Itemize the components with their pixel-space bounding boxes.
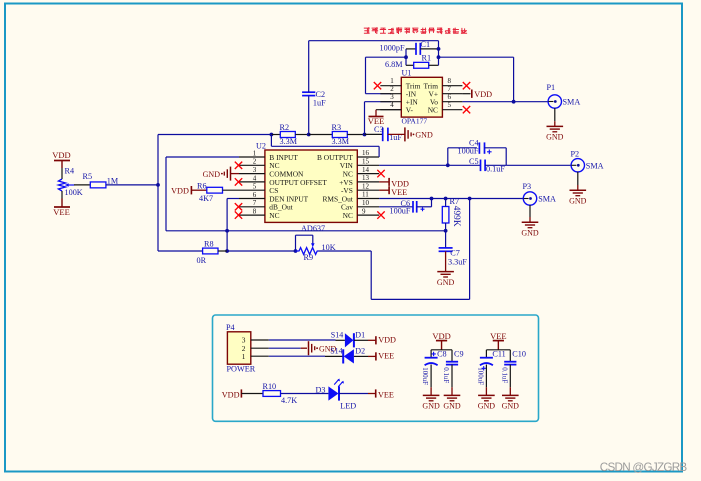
svg-text:1: 1 <box>253 149 257 157</box>
svg-text:100uF: 100uF <box>390 207 411 216</box>
wire VIN line <box>379 164 448 166</box>
wire B OUTPUT to R2 node <box>270 135 272 147</box>
svg-text:VDD: VDD <box>474 90 492 99</box>
svg-text:R3: R3 <box>332 123 342 132</box>
node C6 <box>430 197 434 201</box>
svg-text:VDD: VDD <box>222 390 240 399</box>
connector P2 SMA <box>571 159 584 172</box>
diode D1 S14 <box>345 333 354 347</box>
no-connect U2 pin9 <box>377 211 384 218</box>
wire <box>106 184 158 186</box>
wire <box>158 134 271 136</box>
U1 pin 5 <box>442 109 462 111</box>
node R8 out <box>225 249 229 253</box>
svg-text:100K: 100K <box>65 188 83 197</box>
led D3 LED <box>328 386 338 400</box>
no-connect U1 pin8 <box>463 82 470 89</box>
svg-text:GND: GND <box>437 278 455 287</box>
svg-text:100uF: 100uF <box>421 367 428 385</box>
capacitor C4 100uF <box>447 148 449 166</box>
svg-text:VEE: VEE <box>53 207 70 217</box>
power VDD to R6 <box>190 186 192 194</box>
U2 pin 14 <box>357 173 379 175</box>
no-connect U2 pin14 <box>377 170 384 177</box>
svg-text:SMA: SMA <box>563 98 581 107</box>
svg-text:2: 2 <box>390 85 394 93</box>
diode D2 S14 <box>342 349 344 363</box>
power VEE at U2 pin12 <box>379 189 389 191</box>
U2 pin 15 <box>357 164 379 166</box>
svg-text:3.3M: 3.3M <box>332 137 350 146</box>
ground at C9 <box>444 394 461 396</box>
svg-text:AD637: AD637 <box>301 224 325 233</box>
svg-text:13: 13 <box>362 174 370 182</box>
ground at P3 <box>522 221 539 223</box>
no-connect U1 pin5 <box>463 106 470 113</box>
wire <box>281 393 329 395</box>
U1 pin 7 <box>442 93 462 95</box>
node feedback left <box>404 55 408 59</box>
capacitor C5 0.1uF <box>448 164 481 166</box>
U2 pin 12 <box>357 189 379 191</box>
svg-text:1: 1 <box>390 77 394 85</box>
wire <box>227 250 295 252</box>
svg-text:C8: C8 <box>437 350 447 359</box>
svg-text:1M: 1M <box>107 177 119 186</box>
svg-text:V-: V- <box>406 106 414 115</box>
svg-text:U2: U2 <box>256 142 266 151</box>
U2 pin 8 <box>239 214 265 216</box>
svg-text:D2: D2 <box>355 347 365 356</box>
svg-text:SMA: SMA <box>538 195 556 204</box>
node R3 out <box>363 133 367 137</box>
svg-text:P1: P1 <box>547 83 556 92</box>
no-connect U2 pin7 <box>235 203 242 210</box>
svg-text:11: 11 <box>362 191 369 199</box>
connector P4 POWER <box>227 332 250 364</box>
svg-text:100uF: 100uF <box>477 367 484 385</box>
resistor R1 6.8M <box>406 64 414 66</box>
capacitor C1 1000pF <box>406 48 416 50</box>
U1 pin 6 <box>442 101 462 103</box>
U2 pin 4 <box>239 181 265 183</box>
wire <box>554 108 556 121</box>
svg-text:2: 2 <box>253 158 257 166</box>
wire <box>319 250 372 252</box>
node C2 tap <box>307 133 311 137</box>
wire <box>61 168 63 179</box>
node R7 bottom <box>444 229 448 233</box>
capacitor C11 100uF <box>485 350 487 358</box>
svg-text:0.1uF: 0.1uF <box>442 367 449 383</box>
svg-text:P2: P2 <box>571 149 580 158</box>
svg-text:GND: GND <box>546 133 564 142</box>
connector P3 SMA <box>523 192 536 205</box>
node feedback right <box>438 41 440 66</box>
svg-text:1000pF: 1000pF <box>380 43 405 52</box>
wire <box>61 191 63 199</box>
svg-text:6: 6 <box>253 191 257 199</box>
svg-text:3: 3 <box>390 93 394 101</box>
svg-text:8: 8 <box>448 77 452 85</box>
svg-text:6: 6 <box>448 93 452 101</box>
power section frame <box>213 315 539 421</box>
svg-text:4: 4 <box>390 101 394 109</box>
svg-text:SMA: SMA <box>586 161 604 170</box>
svg-text:D1: D1 <box>355 331 365 340</box>
wire B INPUT loop <box>166 156 239 158</box>
ground at C3 <box>388 133 405 135</box>
rms converter U2 AD637 <box>265 150 357 222</box>
svg-text:GND: GND <box>443 402 461 411</box>
resistor R3 3.3M <box>309 134 333 136</box>
svg-text:R8: R8 <box>204 240 214 249</box>
U2 pin 2 <box>239 164 265 166</box>
resistor R10 4.7K <box>263 391 281 397</box>
svg-text:5: 5 <box>448 101 452 109</box>
svg-text:GND: GND <box>502 402 520 411</box>
wire P4 pin3 to D1 <box>269 339 336 341</box>
ground at C11 <box>478 394 495 396</box>
U2 pin 3 <box>239 173 265 175</box>
wire <box>577 172 579 185</box>
svg-text:R5: R5 <box>83 172 93 181</box>
U2 pin 10 <box>357 206 379 208</box>
U1 pin 3 <box>380 101 401 103</box>
node R2 input <box>270 133 274 137</box>
U2 pin 16 <box>357 156 379 158</box>
wire to +IN <box>364 102 366 135</box>
svg-text:P3: P3 <box>523 182 532 191</box>
svg-text:GND: GND <box>415 131 433 140</box>
svg-text:15: 15 <box>362 158 370 166</box>
resistor R6 4K7 <box>207 187 223 193</box>
resistor R2 3.3M <box>271 134 280 136</box>
node loop <box>225 229 229 233</box>
wire C2 to output node <box>309 40 439 42</box>
svg-text:10: 10 <box>362 199 370 207</box>
wire <box>486 349 510 351</box>
power VDD at U1 pin7 <box>462 93 470 95</box>
ground at U2 COMMON <box>231 173 240 175</box>
wire P4 pin1 to D2 <box>269 355 325 357</box>
ground at P1 <box>547 125 564 127</box>
potentiometer R9 10K <box>296 248 319 255</box>
wire R9 to RMS node <box>469 199 471 300</box>
red Chinese annotation 此处为直流分压的低通滤波器 <box>364 27 467 34</box>
svg-text:3: 3 <box>253 166 257 174</box>
U1 pin 8 <box>442 85 462 87</box>
U2 pin 5 <box>239 189 265 191</box>
power VEE at U1 pin4 <box>376 109 401 111</box>
ground at P4 pin2 <box>308 341 310 355</box>
U1 pin 1 <box>380 85 401 87</box>
wire <box>431 349 452 351</box>
svg-text:D3: D3 <box>316 385 326 394</box>
svg-text:100uF: 100uF <box>458 146 479 155</box>
svg-text:9: 9 <box>362 207 366 215</box>
svg-text:VDD: VDD <box>52 150 70 160</box>
svg-text:VEE: VEE <box>368 116 385 126</box>
svg-text:R1: R1 <box>422 53 432 62</box>
capacitor C10 0.1uF <box>509 350 511 362</box>
svg-text:0.1uF: 0.1uF <box>500 367 507 383</box>
no-connect U2 pin8 <box>235 211 242 218</box>
U2 pin 11 <box>357 198 379 200</box>
wire left bus <box>157 135 159 252</box>
svg-text:C11: C11 <box>492 350 505 359</box>
svg-text:14: 14 <box>362 166 370 174</box>
svg-text:0R: 0R <box>197 256 207 265</box>
wire -IN feedback <box>366 56 407 58</box>
U2 pin 9 <box>357 214 379 216</box>
op-amp U1 OPA177 <box>401 77 442 117</box>
svg-text:4: 4 <box>253 174 257 182</box>
wire U1 output to P1 <box>462 101 547 103</box>
wire RMS_Out to P3 <box>379 198 523 200</box>
svg-text:LED: LED <box>340 402 356 411</box>
node divider <box>156 183 160 187</box>
svg-text:7: 7 <box>253 199 257 207</box>
no-connect U1 pin1 <box>374 82 381 89</box>
svg-text:VDD: VDD <box>432 331 450 341</box>
potentiometer R4 100K <box>58 179 65 191</box>
svg-text:VEE: VEE <box>378 352 394 361</box>
svg-text:POWER: POWER <box>227 365 256 374</box>
svg-text:CSDN @GJZGRB: CSDN @GJZGRB <box>600 461 688 474</box>
U2 pin 6 <box>239 198 265 200</box>
wire <box>529 205 531 217</box>
svg-text:R2: R2 <box>280 123 290 132</box>
resistor R5 1M <box>74 184 90 186</box>
capacitor C6 100uF <box>379 206 413 208</box>
resistor R7 499K <box>442 207 449 224</box>
U2 pin 1 <box>239 156 265 158</box>
U2 pin 13 <box>357 181 379 183</box>
svg-text:S14: S14 <box>330 347 342 356</box>
svg-text:0.1uF: 0.1uF <box>486 165 505 174</box>
svg-text:NC: NC <box>269 211 279 220</box>
svg-text:GND: GND <box>569 197 587 206</box>
capacitor C9 0.1uF <box>451 350 453 362</box>
wire to P2 <box>506 164 571 166</box>
svg-text:VEE: VEE <box>378 390 394 399</box>
svg-text:12: 12 <box>362 182 370 190</box>
svg-text:3.3uF: 3.3uF <box>448 257 467 266</box>
capacitor C3 1uF <box>365 133 383 135</box>
power VDD at U2 pin13 <box>379 181 389 183</box>
U1 pin 4 <box>380 109 401 111</box>
svg-text:8: 8 <box>253 208 257 216</box>
svg-text:7: 7 <box>448 85 452 93</box>
no-connect U2 pin2 <box>235 162 242 169</box>
connector P1 SMA <box>548 95 561 108</box>
svg-text:1uF: 1uF <box>313 99 326 108</box>
node VIN <box>446 163 450 167</box>
node R7 top <box>444 197 448 201</box>
svg-text:VDD: VDD <box>171 187 189 196</box>
svg-text:C9: C9 <box>454 350 464 359</box>
no-connect U2 pin4 <box>235 178 242 185</box>
svg-text:R6: R6 <box>197 181 207 190</box>
svg-text:499K: 499K <box>451 206 461 227</box>
svg-text:U1: U1 <box>402 69 412 78</box>
wire <box>158 250 203 252</box>
capacitor C7 3.3uF <box>445 231 447 248</box>
svg-text:R10: R10 <box>263 382 277 391</box>
wire DEN INPUT <box>227 198 239 200</box>
svg-text:VEE: VEE <box>391 188 407 197</box>
svg-text:4.7K: 4.7K <box>281 396 297 405</box>
ground at P2 <box>570 189 587 191</box>
svg-text:R7: R7 <box>450 197 460 206</box>
svg-text:GND: GND <box>478 402 496 411</box>
svg-text:GND: GND <box>521 229 539 238</box>
capacitor C2 1uF <box>308 96 310 135</box>
U2 pin 7 <box>239 206 265 208</box>
svg-text:3.3M: 3.3M <box>280 137 298 146</box>
svg-text:VEE: VEE <box>490 331 507 341</box>
svg-text:4K7: 4K7 <box>199 194 213 203</box>
node R9 left <box>294 249 298 253</box>
ground at C10 <box>502 394 519 396</box>
svg-text:C3: C3 <box>374 125 384 134</box>
svg-text:OPA177: OPA177 <box>402 117 428 126</box>
wire feedback to output <box>439 56 514 58</box>
svg-text:NC: NC <box>428 106 438 115</box>
svg-text:6.8M: 6.8M <box>385 60 403 69</box>
wire, power VEE at D3 <box>339 393 368 395</box>
capacitor C8 100uF <box>430 350 432 358</box>
wire, power VEE at D2 <box>354 355 368 357</box>
svg-text:1: 1 <box>242 352 246 361</box>
svg-text:VDD: VDD <box>378 336 396 345</box>
svg-text:P4: P4 <box>226 323 235 332</box>
U1 pin 2 <box>380 93 401 95</box>
svg-text:C10: C10 <box>512 350 526 359</box>
svg-text:R9: R9 <box>304 253 314 262</box>
svg-text:S14: S14 <box>331 331 343 340</box>
wire P4 pin2 to ground <box>269 347 301 349</box>
svg-text:NC: NC <box>343 211 353 220</box>
svg-text:R4: R4 <box>65 167 75 176</box>
svg-text:C1: C1 <box>421 40 431 49</box>
svg-text:GND: GND <box>422 402 440 411</box>
ground at C8 <box>423 394 440 396</box>
resistor R8 0R <box>203 248 218 254</box>
svg-text:C5: C5 <box>469 157 479 166</box>
svg-text:GND: GND <box>203 170 221 179</box>
svg-text:16: 16 <box>362 149 370 157</box>
node RMS branch <box>468 197 472 201</box>
node output tap <box>512 100 516 104</box>
svg-text:5: 5 <box>253 183 257 191</box>
power VEE (divider bottom) <box>61 199 63 208</box>
ground at C7 <box>437 271 454 273</box>
wire, power VDD at D1 <box>354 339 368 341</box>
